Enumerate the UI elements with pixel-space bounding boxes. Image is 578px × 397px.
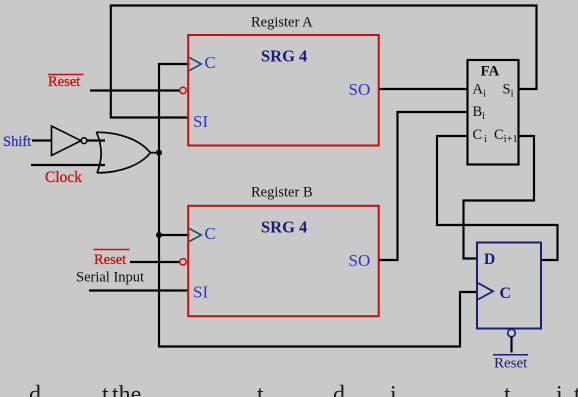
svg-text:SI: SI (193, 283, 208, 302)
svg-text:SO: SO (349, 251, 371, 270)
wire: inverter bubble to OR gate (87, 139, 105, 141)
svg-text:SO: SO (349, 80, 371, 99)
wire: Register B SO to FA Bi (380, 112, 468, 260)
wire: Serial Input to Register B SI (89, 289, 189, 291)
OR gate U1 (96, 132, 150, 173)
wire: D flip-flop Q to FA Ci (437, 136, 558, 260)
wire: clock net vertical and to D flip-flop C (159, 64, 478, 347)
svg-text:Serial Input: Serial Input (76, 270, 144, 286)
svg-text:C: C (205, 53, 216, 72)
node: clock junction at OR output (156, 150, 162, 156)
clock triangle Register A (189, 58, 201, 71)
wire: Shift to inverter (32, 139, 52, 141)
svg-text:Shift: Shift (3, 134, 31, 150)
svg-text:D: D (484, 251, 495, 268)
wire: FA Si feedback to Register A SI (111, 6, 537, 118)
svg-text:C: C (205, 224, 216, 243)
svg-text:C: C (500, 285, 512, 302)
svg-text:FA: FA (481, 64, 500, 80)
wire: Register A SO to FA Ai (380, 88, 468, 90)
wire: FA Ci+1 to D flip-flop D input (464, 136, 535, 259)
svg-text:Clock: Clock (45, 169, 82, 186)
wire: reset stem (510, 337, 512, 353)
node: clock junction at Register B (156, 232, 162, 238)
svg-text:SI: SI (193, 112, 208, 131)
wire: OR output stub (150, 152, 160, 154)
svg-text:Reset: Reset (94, 252, 126, 268)
svg-text:SRG 4: SRG 4 (261, 47, 307, 66)
svg-text:Reset: Reset (494, 356, 528, 372)
register B box (188, 206, 379, 316)
svg-text:SRG 4: SRG 4 (261, 218, 307, 237)
clock triangle Register B (189, 229, 201, 242)
reset bubble D flip-flop (508, 329, 516, 337)
clock triangle D flip-flop (478, 283, 493, 300)
register A box (188, 35, 379, 146)
inverter (Shift) (52, 126, 82, 156)
wire: Reset to Register B bubble (130, 261, 180, 263)
reset bubble Register B (180, 259, 186, 265)
svg-text:Register A: Register A (251, 15, 313, 31)
reset bubble Register A (180, 87, 186, 93)
svg-text:Reset: Reset (48, 74, 80, 90)
full adder FA box (468, 60, 519, 165)
wire: Clock input to OR gate (31, 164, 105, 166)
svg-text:Register B: Register B (251, 185, 313, 201)
wire: Reset to Register A bubble (90, 89, 180, 91)
D flip-flop box (477, 243, 541, 329)
wire: clock branch to Register B C (159, 234, 190, 236)
inverter bubble (81, 138, 87, 144)
